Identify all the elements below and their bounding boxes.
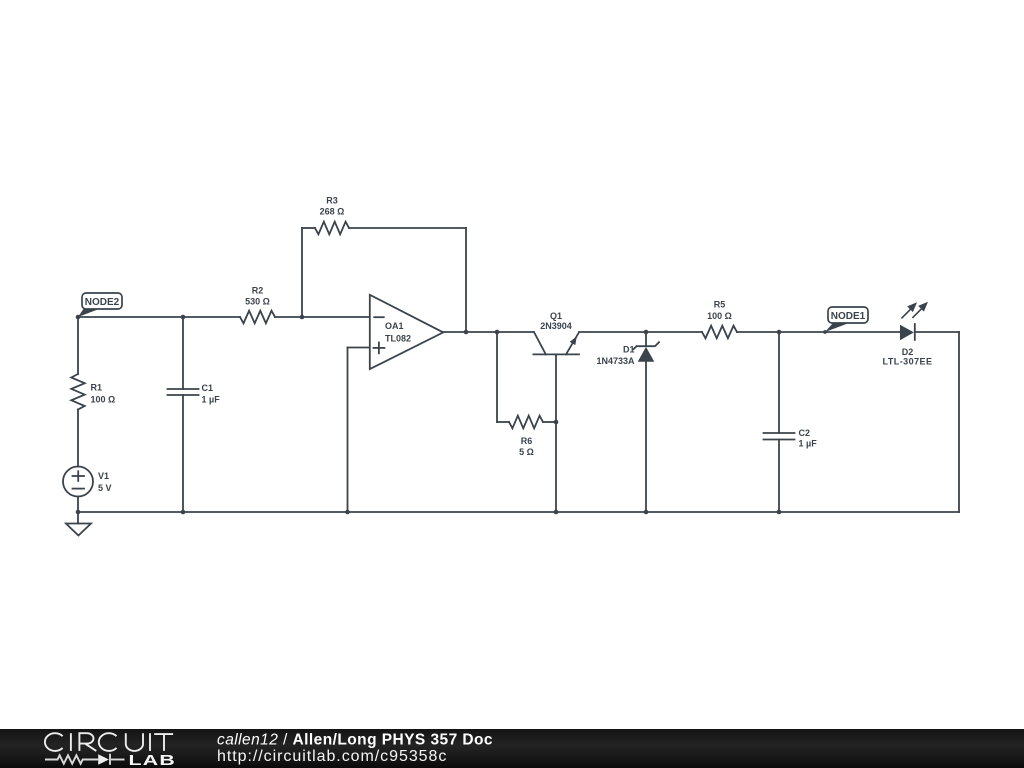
svg-text:1N4733A: 1N4733A bbox=[596, 356, 635, 366]
wire node2 top rail left bbox=[78, 316, 183, 318]
svg-text:1 µF: 1 µF bbox=[202, 395, 221, 405]
footer url bbox=[217, 748, 447, 765]
wire op-amp non-inverting input vertical bbox=[347, 348, 349, 513]
svg-text:R6: R6 bbox=[521, 436, 533, 446]
wire D1 top lead bbox=[645, 332, 647, 346]
wire R1 bottom lead bbox=[77, 410, 79, 467]
resistor R6 bbox=[509, 416, 543, 429]
capacitor C2 plates bbox=[764, 432, 795, 434]
wire D1 bottom lead bbox=[645, 362, 647, 512]
svg-text:100 Ω: 100 Ω bbox=[707, 311, 732, 321]
wire ground stub bbox=[77, 512, 79, 524]
svg-text:R5: R5 bbox=[714, 300, 726, 310]
svg-text:1 µF: 1 µF bbox=[799, 439, 818, 449]
transistor Q1 collector lead bbox=[534, 332, 546, 354]
svg-text:LAB: LAB bbox=[129, 751, 177, 768]
svg-text:OA1: OA1 bbox=[385, 321, 404, 331]
wire C1 top lead bbox=[182, 317, 184, 389]
svg-text:TL082: TL082 bbox=[385, 333, 411, 343]
svg-text:268 Ω: 268 Ω bbox=[320, 207, 345, 217]
capacitor C1 plates bbox=[168, 388, 199, 390]
svg-text:R2: R2 bbox=[252, 286, 264, 296]
svg-text:http://circuitlab.com/c95358c: http://circuitlab.com/c95358c bbox=[217, 748, 447, 765]
diode D2 LED arrow 2 bbox=[912, 309, 921, 318]
resistor R1 bbox=[71, 374, 84, 410]
wire feedback top left bbox=[302, 227, 315, 229]
wire C2 branch down bbox=[778, 332, 780, 433]
resistor R2 bbox=[240, 311, 275, 324]
transistor Q1 base bar bbox=[533, 353, 579, 355]
node NODE2 flag bbox=[78, 309, 99, 317]
svg-text:LTL-307EE: LTL-307EE bbox=[883, 357, 933, 367]
svg-text:5 V: 5 V bbox=[98, 483, 112, 493]
svg-text:530 Ω: 530 Ω bbox=[245, 297, 270, 307]
wire emitter to D1 bbox=[579, 331, 646, 333]
diode D2 LED triangle bbox=[900, 325, 914, 341]
svg-text:5 Ω: 5 Ω bbox=[519, 447, 534, 457]
wire feedback top right bbox=[349, 227, 466, 229]
junction dots bbox=[76, 315, 827, 515]
wire C2 bottom lead bbox=[778, 440, 780, 513]
wire LED to right edge bbox=[915, 331, 959, 333]
wire op-amp non-inverting input horizontal bbox=[348, 347, 371, 349]
svg-text:V1: V1 bbox=[98, 471, 109, 481]
wire C1 bottom lead bbox=[182, 395, 184, 512]
wire feedback down to output bbox=[465, 228, 467, 332]
wire V1 bottom lead bbox=[77, 497, 79, 513]
wire to R2 bbox=[183, 316, 240, 318]
wire bottom rail bbox=[78, 511, 959, 513]
transistor Q1 emitter lead bbox=[566, 333, 579, 355]
footer title bbox=[217, 732, 493, 749]
diode D1 zener triangle bbox=[638, 347, 655, 362]
resistor R3 bbox=[315, 222, 349, 235]
diode D2 LED arrow 1 bbox=[901, 303, 926, 318]
diode D2 LED cathode bar bbox=[914, 323, 916, 341]
wire R6 left lead bbox=[497, 421, 509, 423]
diode D1 zener bar bbox=[634, 342, 660, 349]
logo CIRCUIT letters bbox=[45, 733, 173, 751]
svg-text:D2: D2 bbox=[902, 347, 914, 357]
wire R6 branch down bbox=[496, 332, 498, 422]
svg-text:2N3904: 2N3904 bbox=[540, 321, 572, 331]
svg-text:C2: C2 bbox=[799, 428, 811, 438]
op-amp OA1 body bbox=[370, 295, 443, 369]
wire to op-amp inverting input bbox=[302, 316, 370, 318]
wire feedback up bbox=[301, 228, 303, 317]
op-amp minus sign bbox=[374, 316, 384, 318]
node NODE1 flag bbox=[825, 323, 849, 332]
voltage source V1 bbox=[63, 467, 93, 497]
wire op-amp output bbox=[443, 331, 534, 333]
wire right edge down bbox=[958, 332, 960, 512]
svg-text:NODE2: NODE2 bbox=[85, 297, 120, 308]
op-amp plus sign bbox=[374, 347, 385, 349]
wire R5 to LED bbox=[737, 331, 900, 333]
logo LAB bbox=[129, 751, 177, 768]
svg-text:C1: C1 bbox=[202, 383, 214, 393]
svg-text:Q1: Q1 bbox=[550, 311, 562, 321]
svg-text:100 Ω: 100 Ω bbox=[91, 395, 116, 405]
footer bar bbox=[0, 729, 1024, 768]
wire R2 to feedback junction bbox=[275, 316, 302, 318]
svg-text:R3: R3 bbox=[326, 196, 338, 206]
svg-text:callen12 / Allen/Long PHYS 357: callen12 / Allen/Long PHYS 357 Doc bbox=[217, 732, 493, 749]
wire Q1 base down bbox=[555, 354, 557, 512]
wire R1 top lead bbox=[77, 317, 79, 374]
transistor Q1 emitter arrow bbox=[570, 336, 577, 345]
resistor R5 bbox=[702, 326, 737, 339]
logo resistor diode squiggle bbox=[45, 754, 125, 765]
svg-text:NODE1: NODE1 bbox=[831, 311, 866, 322]
wire D1 to R5 bbox=[646, 331, 702, 333]
svg-text:R1: R1 bbox=[91, 383, 103, 393]
svg-text:D1: D1 bbox=[623, 344, 635, 354]
wire R6 right lead bbox=[543, 421, 556, 423]
ground bbox=[66, 524, 91, 536]
